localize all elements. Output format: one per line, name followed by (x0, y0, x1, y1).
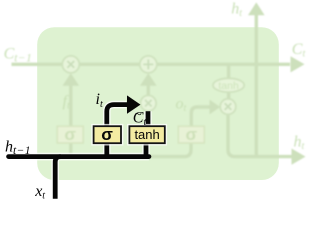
arrowhead: h_t top output (248, 2, 265, 15)
wire: sigma-o output curving right into output-multiply (faded) (191, 107, 209, 126)
wire: output-multiply descent then right to h_t exit (faded) (228, 114, 292, 156)
arrowhead: i_t into input-multiply (black) (127, 95, 141, 113)
wire: h rail faded segment bending up into sigma-o (faded) (150, 143, 191, 157)
wire: cell-state line C_{t-1} to C_t (faded) (12, 63, 291, 66)
multiply gate circle (output product) (220, 99, 236, 115)
arrowhead: into add gate (140, 73, 157, 86)
svg-text:~: ~ (135, 107, 142, 122)
wire: tanh input from rail (black) (144, 143, 149, 156)
svg-text:ht: ht (231, 1, 242, 20)
multiply gate circle (input product) (141, 95, 157, 111)
wire: x_t input line bending right into rail (black) (55, 157, 61, 199)
tanh box candidate layer (highlighted) (129, 126, 164, 143)
svg-text:tanh: tanh (218, 80, 239, 92)
sigma box o-gate (faded) (178, 125, 204, 144)
sigma box i-gate (highlighted) (94, 125, 121, 144)
wire: sigma-f output up to forget-multiply (faded) (69, 86, 72, 127)
svg-text:tanh: tanh (134, 127, 159, 142)
wire: sigma-i output curving right toward input-multiply (black) (107, 105, 127, 127)
LSTM cell body (37, 27, 279, 180)
svg-text:σ: σ (185, 125, 197, 144)
sigma box f-gate (faded) (57, 125, 83, 144)
arrowhead: into output multiply (210, 100, 221, 115)
svg-text:ht−1: ht−1 (5, 139, 31, 158)
wire: sigma-f input from h rail (faded) (69, 143, 72, 158)
tanh oval (faded) (213, 78, 244, 92)
add gate circle (on C line) (140, 56, 157, 73)
halo: white underlay for black wires (9, 105, 149, 199)
svg-text:σ: σ (64, 125, 76, 144)
wire: sigma-i input from rail (black) (104, 143, 109, 156)
arrowhead: into forget multiply (63, 73, 80, 86)
svg-text:xt: xt (34, 183, 45, 202)
wire: tanh oval down to output-multiply (faded) (227, 92, 230, 99)
wire: h_{t-1} input rail (black) (9, 154, 149, 159)
svg-text:σ: σ (101, 125, 113, 144)
svg-text:Ct: Ct (292, 41, 306, 60)
arrowhead: C_t output right (291, 56, 305, 72)
wire: tanh output up to input-multiply (black) (146, 111, 151, 126)
wire: C-line branch down to tanh oval (faded) (227, 64, 230, 78)
arrowhead: h_t right output (292, 149, 306, 165)
svg-text:ht: ht (294, 134, 305, 153)
wire: h_t top output branch (faded vertical) (255, 15, 258, 157)
wire: input-multiply up to add gate (faded) (147, 86, 150, 96)
svg-text:Ct−1: Ct−1 (4, 46, 33, 65)
multiply gate circle (forget, on C line) (62, 56, 79, 73)
